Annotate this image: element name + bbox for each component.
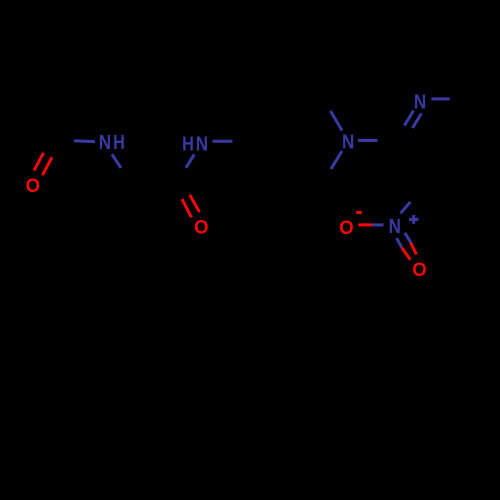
bond N2-C4 piperidinyl (blue half) [213, 140, 233, 143]
bond N5=O4 double bond inner line (blue half) [397, 238, 402, 248]
bond N3-C7 pyridine C2 (blue half) [358, 139, 378, 142]
bond N3-C5 piperidine up-left (blue half) [331, 111, 343, 131]
bond N5=O4 double bond inner line (red half) [402, 248, 411, 260]
svg-text:H: H [113, 130, 125, 153]
bond N5-C9 nitro to ring C3 (blue half) [401, 202, 411, 213]
bond N1-C2 alpha carbon (blue half) [112, 154, 121, 168]
svg-text:N: N [414, 90, 426, 113]
charge minus on O3 [356, 211, 362, 214]
bond N5=O4 double bond main line (blue half) [405, 233, 411, 243]
atom N1 amide NH [99, 130, 125, 153]
svg-text:O: O [412, 259, 427, 281]
bond N5=O4 double bond main line (red half) [411, 243, 417, 255]
svg-text:N: N [99, 131, 111, 154]
bond N2-C3 carbonyl (blue half) [186, 154, 194, 167]
bond N4-C8 pyridine C6 (blue half) [431, 97, 449, 100]
svg-text:O: O [194, 217, 209, 239]
svg-text:O: O [339, 218, 354, 240]
svg-text:N: N [389, 215, 401, 238]
bond N4=C7 pyridine double bond (blue halves) [404, 111, 421, 128]
bond C1=O1 formyl double bond (red halves) [34, 153, 52, 175]
bond O3-N5 single bond (red half) [358, 223, 372, 226]
bond C3=O2 amide double bond (red halves) [182, 195, 200, 217]
bond O3-N5 single bond (blue half) [372, 223, 384, 226]
bond N3-C6 piperidine down-left (blue half) [331, 151, 342, 169]
bond N1-C1 (blue half) [74, 139, 95, 143]
svg-text:N: N [342, 130, 354, 153]
charge plus on N5 [409, 215, 418, 224]
svg-text:H: H [182, 132, 194, 155]
svg-text:N: N [196, 132, 208, 155]
svg-text:O: O [26, 176, 41, 198]
atom N2 amide HN [182, 132, 208, 155]
